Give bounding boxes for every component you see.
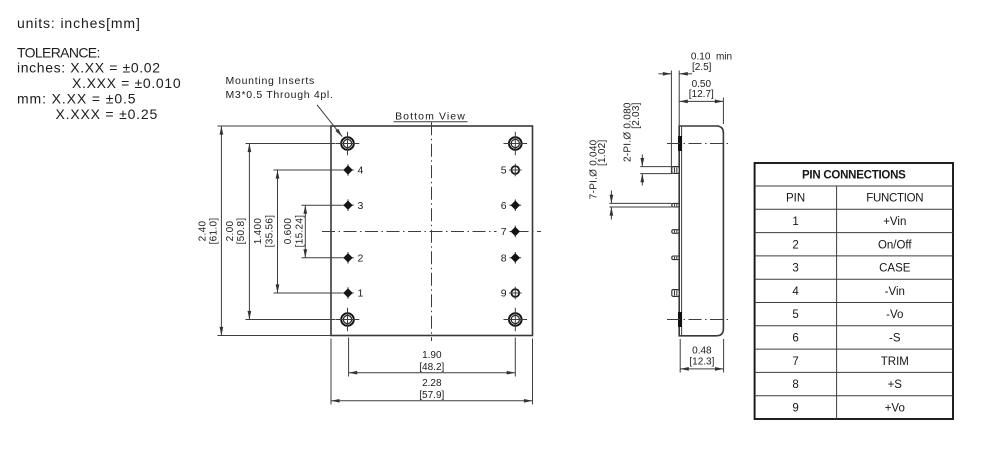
svg-text:4: 4 — [792, 286, 799, 298]
svg-text:7: 7 — [501, 226, 507, 238]
svg-text:X.XXX = ±0.010: X.XXX = ±0.010 — [72, 75, 181, 91]
svg-text:+Vin: +Vin — [883, 216, 906, 228]
svg-text:PIN: PIN — [786, 193, 805, 205]
svg-text:6: 6 — [792, 333, 798, 345]
svg-text:1: 1 — [358, 288, 364, 300]
svg-text:FUNCTION: FUNCTION — [866, 193, 923, 205]
svg-text:2.40: 2.40 — [198, 221, 209, 242]
svg-text:4: 4 — [358, 165, 364, 177]
svg-text:2.28: 2.28 — [422, 378, 442, 389]
svg-text:mm: X.XX = ±0.5: mm: X.XX = ±0.5 — [17, 91, 136, 107]
svg-text:On/Off: On/Off — [878, 239, 912, 251]
svg-text:[15.24]: [15.24] — [295, 215, 306, 248]
svg-text:PIN CONNECTIONS: PIN CONNECTIONS — [802, 170, 906, 182]
svg-text:3: 3 — [358, 200, 364, 212]
svg-text:TOLERANCE:: TOLERANCE: — [17, 45, 100, 61]
svg-text:9: 9 — [792, 402, 798, 414]
svg-text:X.XXX = ±0.25: X.XXX = ±0.25 — [56, 106, 159, 122]
svg-text:0.10 min: 0.10 min — [691, 51, 732, 62]
svg-text:5: 5 — [501, 165, 507, 177]
svg-text:8: 8 — [501, 253, 507, 265]
svg-text:Bottom View: Bottom View — [395, 111, 466, 123]
svg-text:1.90: 1.90 — [422, 350, 442, 361]
svg-text:8: 8 — [792, 379, 798, 391]
svg-text:[12.3]: [12.3] — [689, 357, 714, 368]
svg-text:-S: -S — [889, 333, 901, 345]
svg-text:TRIM: TRIM — [881, 356, 909, 368]
svg-text:CASE: CASE — [879, 263, 911, 275]
svg-text:1.400: 1.400 — [253, 218, 264, 245]
svg-text:2: 2 — [358, 253, 364, 265]
svg-text:[48.2]: [48.2] — [419, 362, 444, 373]
svg-text:[50.8]: [50.8] — [236, 218, 247, 245]
svg-text:3: 3 — [792, 263, 798, 275]
svg-text:[2.5]: [2.5] — [692, 62, 712, 73]
svg-text:9: 9 — [501, 288, 507, 300]
svg-text:1: 1 — [792, 216, 798, 228]
svg-text:+Vo: +Vo — [885, 402, 905, 414]
svg-text:units: inches[mm]: units: inches[mm] — [17, 15, 141, 31]
svg-text:Mounting Inserts: Mounting Inserts — [226, 75, 315, 87]
svg-text:[61.0]: [61.0] — [209, 218, 220, 245]
svg-text:-Vo: -Vo — [886, 309, 903, 321]
svg-text:inches: X.XX = ±0.02: inches: X.XX = ±0.02 — [17, 60, 161, 76]
svg-text:M3*0.5 Through 4pl.: M3*0.5 Through 4pl. — [226, 89, 334, 101]
svg-text:[57.9]: [57.9] — [419, 390, 444, 401]
svg-text:7: 7 — [792, 356, 798, 368]
svg-text:[1.02]: [1.02] — [597, 140, 608, 167]
svg-text:+S: +S — [888, 379, 903, 391]
svg-text:0.600: 0.600 — [283, 218, 294, 245]
svg-text:0.48: 0.48 — [692, 346, 712, 357]
svg-text:2: 2 — [792, 239, 798, 251]
svg-text:[12.7]: [12.7] — [689, 89, 714, 100]
svg-text:[2.03]: [2.03] — [631, 102, 642, 129]
svg-text:-Vin: -Vin — [885, 286, 905, 298]
svg-text:5: 5 — [792, 309, 798, 321]
svg-text:[35.56]: [35.56] — [265, 215, 276, 248]
svg-text:6: 6 — [501, 200, 507, 212]
svg-text:2.00: 2.00 — [225, 221, 236, 242]
